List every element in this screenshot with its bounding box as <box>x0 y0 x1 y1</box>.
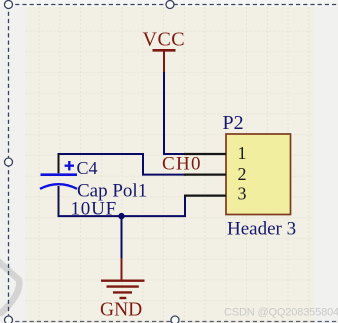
top margin strip <box>0 0 338 7</box>
wire GND drop <box>121 216 123 259</box>
handle bottom-middle <box>171 316 179 323</box>
svg-text:Header 3: Header 3 <box>227 219 296 240</box>
handle bottom-left corner <box>5 316 13 323</box>
pin 1 <box>184 153 226 155</box>
junction dot <box>118 213 124 219</box>
handle left-middle <box>5 158 13 166</box>
watermark logo bottom-left <box>0 260 19 313</box>
svg-text:P2: P2 <box>223 112 244 134</box>
svg-text:C4: C4 <box>77 158 98 178</box>
svg-text:CH0: CH0 <box>162 154 202 175</box>
pin 2 <box>184 174 226 176</box>
svg-text:10UF: 10UF <box>71 199 118 220</box>
selection marquee bottom edge <box>8 321 338 323</box>
selection marquee top edge <box>8 4 338 6</box>
wire step to pin 2 <box>142 174 186 176</box>
svg-text:2: 2 <box>238 164 247 184</box>
connector P2 body <box>226 134 291 215</box>
handle top-left corner <box>5 1 13 9</box>
svg-text:3: 3 <box>238 184 247 204</box>
wire pin 1 horizontal <box>163 153 186 155</box>
wire up to pin 3 <box>184 196 186 217</box>
pin 3 <box>184 195 226 197</box>
wire VCC stem down to pin 1 <box>163 72 165 154</box>
ground <box>100 258 145 321</box>
svg-text:1: 1 <box>238 143 247 163</box>
svg-text:VCC: VCC <box>143 29 186 51</box>
wire step down segment <box>142 153 144 175</box>
wire bottom horizontal <box>58 215 187 217</box>
svg-text:GND: GND <box>100 300 142 321</box>
wire cap top to step corner <box>58 153 145 155</box>
selection marquee left edge <box>8 5 10 321</box>
power port VCC <box>143 29 186 74</box>
capacitor C4 <box>40 154 77 216</box>
handle top-middle <box>166 1 174 9</box>
svg-text:CSDN @QQ2083558048: CSDN @QQ2083558048 <box>224 307 338 319</box>
